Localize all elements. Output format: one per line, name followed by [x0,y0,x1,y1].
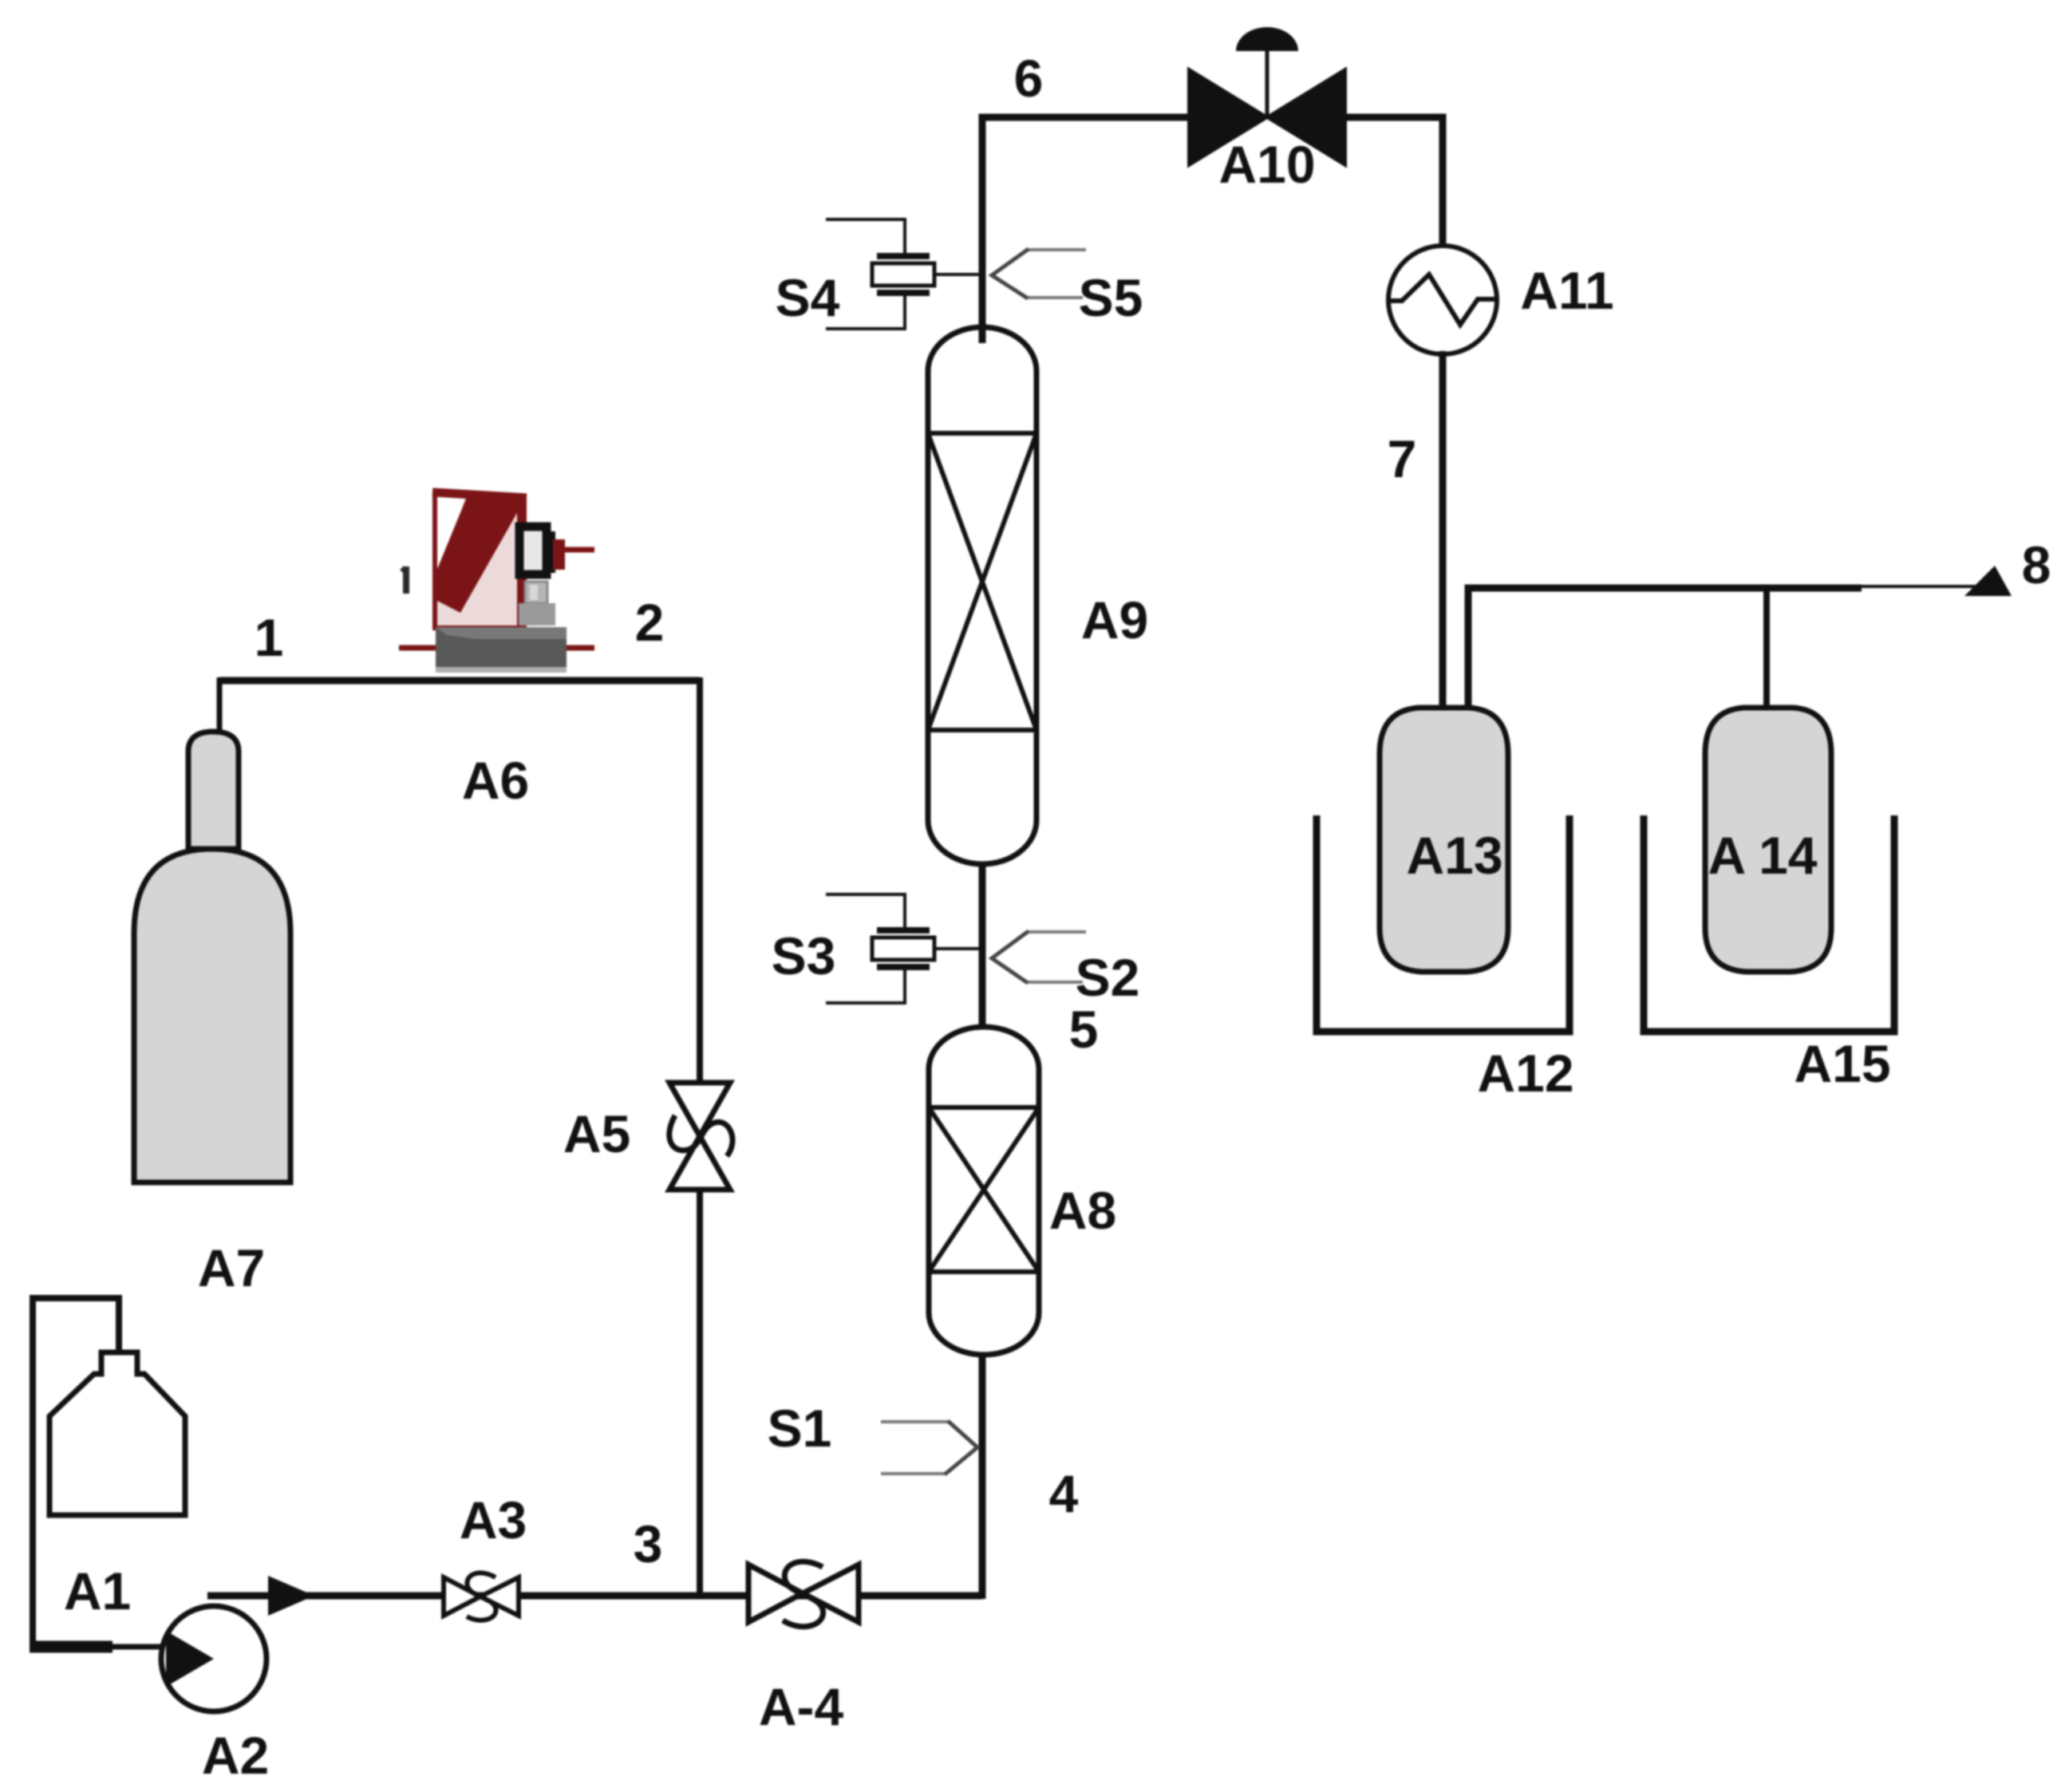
svg-text:A5: A5 [563,1104,630,1163]
wire: pipe above A9 up to top run (stream 6) [982,117,1189,343]
svg-text:S1: S1 [768,1399,832,1458]
valve A3 [444,1573,519,1620]
svg-text:A-4: A-4 [759,1677,844,1736]
vessel A13 [1380,708,1508,972]
arrowhead stream 8 [1964,566,2012,596]
vessel A14 [1705,708,1831,972]
svg-text:6: 6 [1014,49,1044,108]
svg-text:A13: A13 [1406,826,1502,885]
svg-text:S5: S5 [1079,268,1143,327]
svg-text:A7: A7 [198,1238,265,1297]
svg-text:7: 7 [1388,429,1417,488]
wire: stream 1-2 top horizontal pipe [219,677,700,685]
bath A12 [1317,815,1570,1032]
svg-text:A11: A11 [1520,261,1613,320]
svg-text:A3: A3 [460,1490,527,1549]
wire: drop from pipe into cylinder A7 neck [217,677,223,734]
column A9 (packed bed) [928,327,1036,864]
wire: pipe from A10 to heat exchanger A11 [1345,117,1443,249]
wire: stream 8 branch from A13 to vent [1468,588,1862,710]
svg-text:S3: S3 [772,926,836,985]
wire: vertical line 2 from pipe down to valve A5 [697,677,703,1085]
column A8 (packed bed) [929,1027,1039,1355]
wire: bottom main pipe (stream 3) [207,1593,982,1600]
pump A6 (HPLC pump icon) [399,492,594,673]
sensor S2 (arrow pointing left at pipe) [992,931,1086,983]
svg-text:A10: A10 [1218,135,1315,194]
sensor S3 (capacitor style, left of pipe) [826,894,979,1003]
svg-text:A15: A15 [1794,1034,1890,1093]
flow arrow after pump [268,1576,314,1616]
svg-text:8: 8 [2022,535,2051,594]
svg-text:5: 5 [1069,1000,1099,1059]
sensor S4 (capacitor style, left of pipe) [826,219,979,329]
svg-text:2: 2 [635,593,665,652]
valve A5 (vertical needle valve) [669,1083,732,1190]
pump A2 [161,1606,267,1711]
svg-text:3: 3 [634,1514,663,1573]
svg-text:A12: A12 [1477,1044,1573,1103]
wire: branch down to vessel A14 [1763,588,1770,710]
wire: suction pipe to pump A2 [30,1641,113,1653]
svg-text:A6: A6 [462,751,529,810]
sensor S1 (pointing right at riser) [881,1421,977,1474]
svg-text:S4: S4 [776,268,840,327]
svg-text:A9: A9 [1081,590,1148,649]
wire: vertical from valve A5 down to bottom pipe [697,1188,703,1596]
svg-text:A1: A1 [64,1561,131,1620]
wire: riser from bottom pipe to column A8 (stream 4) [979,1348,986,1599]
svg-text:S2: S2 [1076,948,1140,1007]
wire: stream 7 from A11 down into vessel A13 [1439,351,1447,710]
svg-text:A8: A8 [1049,1181,1116,1240]
svg-text:4: 4 [1049,1464,1079,1523]
valve A-4 [748,1561,859,1626]
valve A10 (control valve with actuator) [1189,27,1345,165]
sensor S5 (arrow pointing left at pipe) [992,249,1086,298]
heat exchanger A11 [1388,246,1497,354]
solvent bottle A1 [33,1295,185,1647]
bath A15 [1644,815,1894,1032]
svg-text:A2: A2 [202,1726,269,1785]
wire: pipe between A8 and A9 [979,862,986,1029]
svg-text:A 14: A 14 [1708,826,1818,885]
gas cylinder A7 [134,732,290,1182]
svg-text:1: 1 [255,608,284,667]
